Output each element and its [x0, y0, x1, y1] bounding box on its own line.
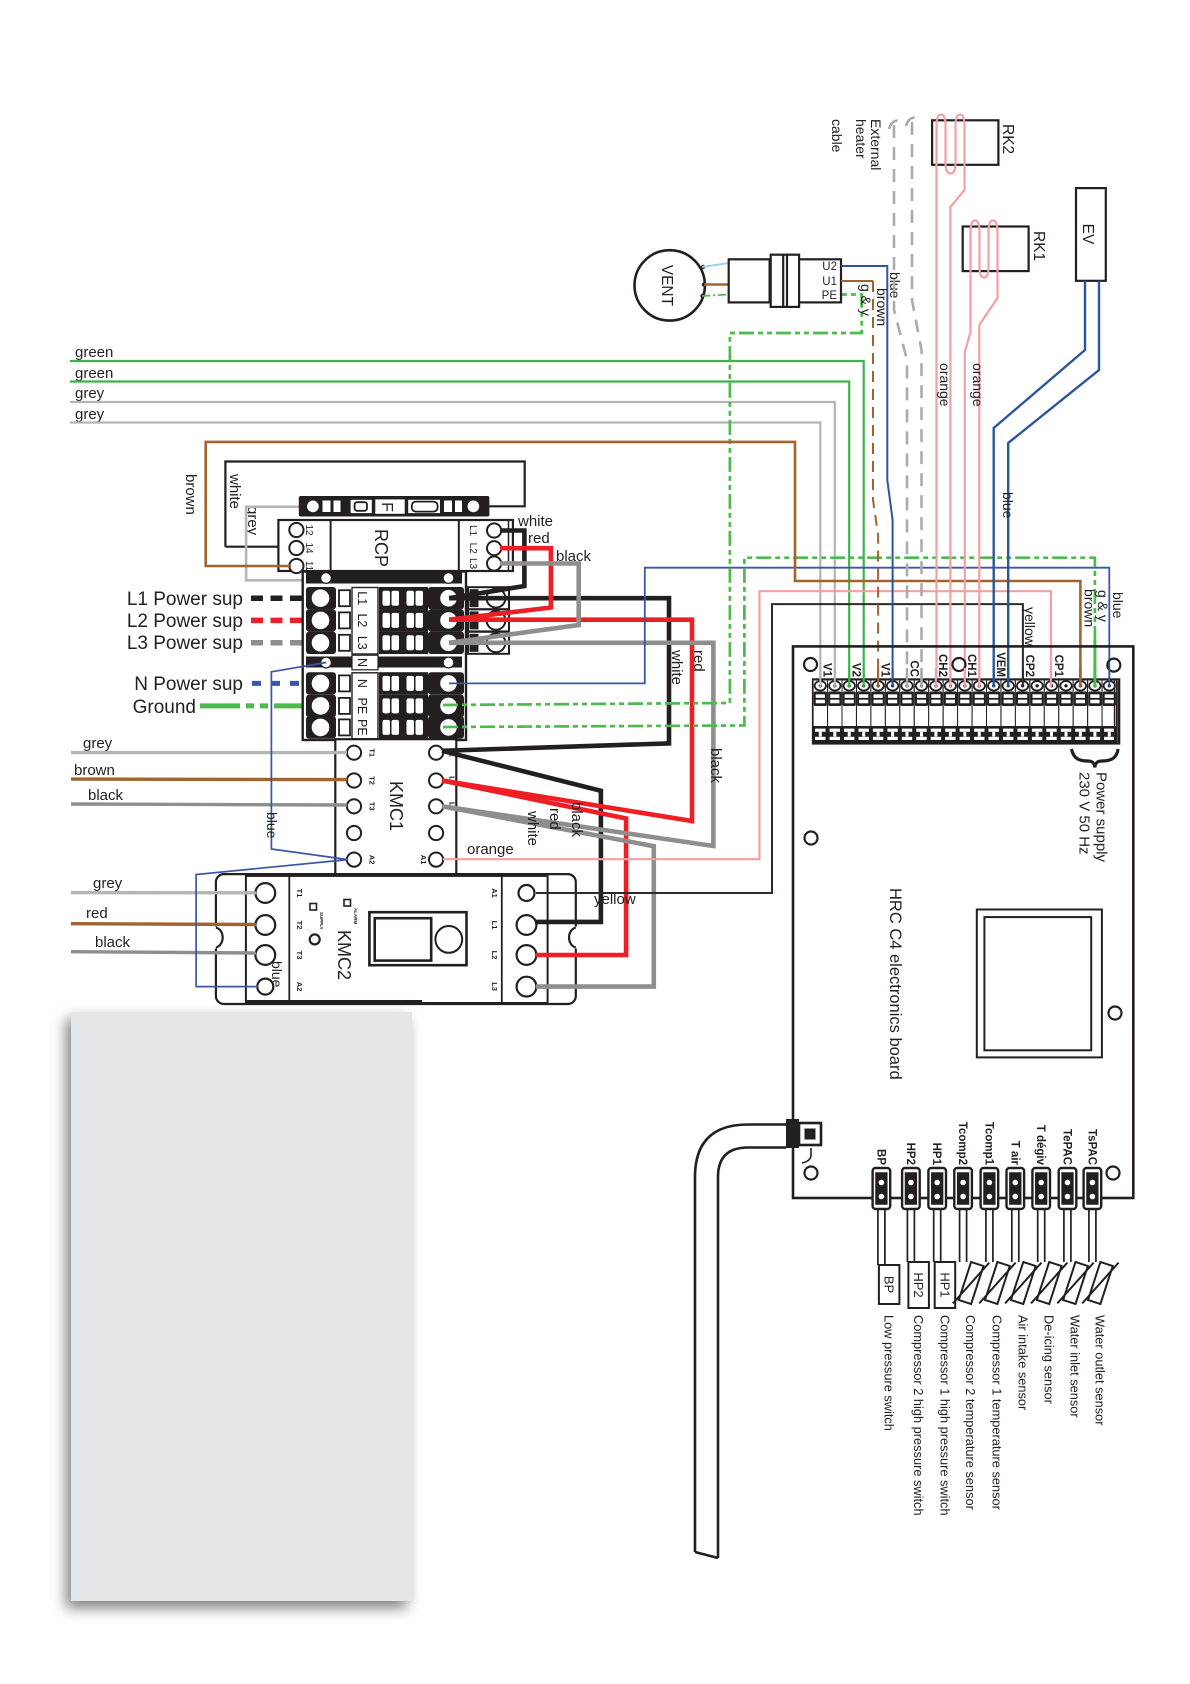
svg-text:Ground: Ground — [133, 697, 196, 718]
svg-text:VEM: VEM — [994, 652, 1006, 677]
svg-text:Compressor 1 high pressure swi: Compressor 1 high pressure switch — [937, 1315, 952, 1516]
svg-text:blue: blue — [1110, 592, 1126, 619]
thermistor Tcomp1 — [979, 1256, 1015, 1310]
wire blue EV to board t13 — [994, 281, 1085, 685]
pressure switch BP — [879, 1265, 900, 1304]
svg-text:cable: cable — [829, 119, 845, 153]
svg-text:blue: blue — [264, 812, 280, 839]
svg-text:CH2: CH2 — [936, 654, 948, 677]
sensor wires — [878, 1209, 1096, 1265]
svg-text:white: white — [668, 649, 685, 685]
fan VENT — [635, 250, 705, 320]
svg-text:TsPAC: TsPAC — [1085, 1129, 1097, 1165]
pressure switch HP2 — [908, 1262, 929, 1308]
wire blue N terminal to board t21 — [449, 568, 1109, 685]
svg-text:CH1: CH1 — [965, 654, 977, 678]
svg-text:V1: V1 — [821, 663, 833, 678]
thermistor TePAC — [1057, 1256, 1093, 1310]
svg-text:black: black — [88, 787, 124, 804]
wire black to KMC2 T3 — [71, 934, 256, 953]
svg-text:black: black — [556, 548, 592, 565]
svg-text:KMC2: KMC2 — [334, 930, 354, 980]
svg-text:Tcomp1: Tcomp1 — [982, 1122, 994, 1166]
legend L1 Power sup — [127, 589, 318, 610]
svg-text:Air intake sensor: Air intake sensor — [1015, 1315, 1030, 1411]
grey placeholder panel — [71, 1012, 412, 1601]
display cutout — [977, 910, 1102, 1058]
svg-text:blue: blue — [269, 961, 285, 988]
svg-text:white: white — [517, 513, 553, 530]
svg-text:L3: L3 — [467, 558, 478, 570]
thermistor T air — [1005, 1256, 1041, 1310]
power cable tube — [695, 1125, 786, 1559]
svg-text:N Power sup: N Power sup — [134, 674, 243, 695]
sensor connectors on board — [873, 1168, 1102, 1209]
svg-text:white: white — [226, 473, 243, 509]
svg-text:red: red — [528, 530, 550, 547]
wire brown dashed VENT U1 to board t5 — [841, 280, 873, 282]
svg-text:grey: grey — [75, 385, 105, 402]
wire g and y solid tail into t20 — [1093, 640, 1096, 685]
label External heater cable — [829, 119, 884, 170]
svg-text:T1: T1 — [295, 889, 304, 898]
svg-text:L2 Power sup: L2 Power sup — [127, 611, 243, 632]
VENT terminal dots — [700, 265, 706, 298]
board power cable connector — [786, 1119, 821, 1163]
svg-text:orange: orange — [937, 363, 953, 407]
wire grey 1 — [70, 385, 835, 685]
svg-text:T2: T2 — [295, 921, 304, 930]
svg-text:V2: V2 — [850, 663, 862, 677]
svg-text:brown: brown — [874, 288, 890, 326]
wire blue EV to board t14 — [1008, 281, 1099, 685]
svg-text:RK2: RK2 — [999, 124, 1016, 154]
svg-text:U1: U1 — [822, 276, 837, 288]
sensor description labels — [882, 1315, 1108, 1516]
wire cyan VENT U2 lead — [702, 263, 729, 267]
svg-text:green: green — [75, 365, 113, 382]
wire red RCP L2 to KMC1/KMC2 — [442, 548, 692, 955]
svg-text:black: black — [95, 934, 131, 951]
svg-text:BP: BP — [874, 1149, 886, 1165]
wire grey to KMC2 T1 — [71, 875, 256, 893]
wire grey 2 — [70, 406, 820, 685]
svg-text:red: red — [86, 905, 108, 922]
relay RCP — [278, 520, 513, 573]
svg-text:L2: L2 — [467, 543, 478, 555]
contactor KMC1 — [335, 739, 456, 874]
terminal block extension L1 L2 L3 — [468, 587, 509, 654]
svg-text:VENT: VENT — [658, 265, 675, 307]
svg-text:heater: heater — [853, 119, 869, 159]
svg-text:11: 11 — [303, 561, 314, 572]
svg-text:A2: A2 — [368, 855, 377, 865]
external heater cable dashed wires — [889, 117, 922, 685]
legend N Power sup — [134, 674, 318, 695]
svg-text:CC: CC — [908, 660, 920, 677]
svg-text:L1: L1 — [467, 525, 478, 537]
wire blue N to KMC1 A2 / KMC2 A2 — [196, 663, 348, 987]
svg-text:TePAC: TePAC — [1061, 1129, 1073, 1165]
svg-text:T dégiv: T dégiv — [1034, 1125, 1046, 1166]
thermistor T degiv — [1031, 1256, 1067, 1310]
svg-text:blue: blue — [1000, 492, 1016, 519]
legend L3 Power sup — [127, 633, 318, 654]
heater RK1 — [963, 221, 1047, 687]
svg-text:Compressor 1 temperature senso: Compressor 1 temperature sensor — [990, 1315, 1005, 1511]
svg-text:Water outlet sensor: Water outlet sensor — [1093, 1315, 1108, 1426]
svg-text:PE: PE — [355, 719, 369, 736]
svg-text:PE: PE — [822, 290, 838, 302]
svg-text:De-icing sensor: De-icing sensor — [1041, 1315, 1056, 1405]
svg-text:External: External — [868, 119, 884, 170]
svg-text:V1: V1 — [879, 663, 891, 678]
svg-text:grey: grey — [93, 875, 123, 892]
legend L2 Power sup — [127, 611, 318, 632]
svg-text:yellow: yellow — [594, 891, 636, 908]
svg-text:L2: L2 — [490, 951, 499, 960]
svg-text:230 V 50 Hz: 230 V 50 Hz — [1076, 772, 1093, 855]
svg-text:white: white — [524, 810, 541, 846]
svg-text:L1: L1 — [490, 921, 499, 930]
svg-text:black: black — [568, 802, 585, 838]
svg-text:red: red — [690, 650, 707, 672]
svg-text:g & y: g & y — [858, 284, 874, 316]
svg-text:T3: T3 — [368, 802, 377, 811]
wire g and y VENT PE lead — [702, 295, 729, 297]
wire brown RCP 11 to board t19 — [206, 442, 1081, 685]
svg-text:Low pressure switch: Low pressure switch — [882, 1315, 897, 1431]
brace power supply — [1072, 749, 1119, 768]
svg-text:U2: U2 — [822, 261, 837, 273]
svg-text:HP1: HP1 — [930, 1143, 942, 1166]
svg-text:brown: brown — [74, 762, 115, 779]
svg-text:EV: EV — [1079, 224, 1096, 245]
wire ground PE row2 to board t20 — [443, 558, 1095, 727]
svg-text:L1 Power sup: L1 Power sup — [127, 589, 243, 610]
wire grey to KMC1 T1 — [71, 735, 347, 753]
main terminal block X1 — [303, 572, 466, 741]
wire green 2 — [70, 365, 849, 685]
board terminal strip — [813, 679, 1119, 743]
svg-text:N: N — [355, 679, 369, 688]
svg-text:SUPPLY: SUPPLY — [319, 912, 324, 930]
svg-text:T3: T3 — [295, 951, 304, 960]
svg-text:Water inlet sensor: Water inlet sensor — [1068, 1315, 1083, 1418]
svg-text:green: green — [75, 344, 113, 361]
labels U2 U1 PE — [822, 261, 838, 302]
svg-text:CP1: CP1 — [1052, 655, 1064, 678]
svg-text:HP2: HP2 — [911, 1272, 926, 1297]
svg-text:L3: L3 — [490, 982, 499, 991]
svg-text:A1: A1 — [490, 888, 499, 898]
svg-text:PE: PE — [355, 698, 369, 715]
svg-text:F: F — [378, 502, 395, 512]
cable outline rectangle (white cable) — [225, 462, 524, 547]
wire brown VENT U1 lead — [704, 283, 729, 285]
svg-text:12: 12 — [303, 524, 314, 536]
svg-text:grey: grey — [75, 406, 105, 423]
svg-text:14: 14 — [303, 542, 314, 554]
svg-text:brown: brown — [182, 474, 199, 515]
wire tips into board terminals — [820, 668, 1109, 687]
svg-text:HP1: HP1 — [937, 1272, 952, 1297]
svg-text:ALARM: ALARM — [353, 908, 358, 924]
svg-text:Compressor 2 high pressure swi: Compressor 2 high pressure switch — [911, 1315, 926, 1516]
HRC C4 electronics board — [793, 646, 1133, 1198]
svg-text:A2: A2 — [295, 982, 304, 992]
svg-text:L3: L3 — [355, 636, 369, 650]
wire blue VENT U2 to board t6 — [841, 266, 893, 685]
connector labels BP..TsPAC — [874, 1122, 1097, 1166]
svg-text:L3 Power sup: L3 Power sup — [127, 633, 243, 654]
svg-text:orange: orange — [970, 363, 986, 407]
heater RK2 — [932, 115, 1016, 687]
svg-text:brown: brown — [1082, 589, 1098, 627]
valve EV — [1076, 188, 1106, 281]
svg-text:HP2: HP2 — [904, 1143, 916, 1165]
svg-text:KMC1: KMC1 — [386, 781, 406, 831]
svg-text:T air: T air — [1008, 1141, 1020, 1166]
svg-text:A1: A1 — [419, 855, 428, 865]
fuse block F on RCP — [299, 496, 490, 517]
svg-text:grey: grey — [83, 735, 113, 752]
svg-text:orange: orange — [467, 841, 514, 858]
svg-text:Tcomp2: Tcomp2 — [956, 1122, 968, 1165]
svg-text:black: black — [707, 748, 724, 784]
svg-text:red: red — [546, 808, 563, 830]
svg-text:L2: L2 — [355, 613, 369, 627]
contactor KMC2 — [213, 874, 580, 1004]
legend Ground — [133, 697, 318, 718]
pressure switch HP1 — [935, 1262, 956, 1308]
wire ground PE row1 to VENT — [443, 295, 862, 706]
VENT connector — [729, 255, 841, 307]
svg-text:yellow: yellow — [1022, 607, 1038, 647]
svg-text:CP2: CP2 — [1023, 655, 1035, 677]
svg-text:Compressor 2 temperature senso: Compressor 2 temperature sensor — [963, 1315, 978, 1511]
wire black (drawn grey) RCP L3 to KMC1/KMC2 — [442, 564, 713, 987]
wire red (brown drawn) to KMC2 T2 — [71, 905, 256, 925]
wire grey to F-block — [246, 507, 324, 581]
svg-text:T1: T1 — [368, 748, 377, 757]
svg-text:Power supply: Power supply — [1093, 772, 1110, 863]
svg-text:HRC C4 electronics board: HRC C4 electronics board — [886, 888, 904, 1080]
thermistor Tcomp2 — [953, 1256, 989, 1310]
svg-text:T2: T2 — [368, 776, 377, 785]
svg-text:L1: L1 — [355, 591, 369, 605]
board terminal labels — [821, 652, 1065, 678]
wire brown to KMC1 T2 — [71, 762, 347, 780]
thermistor TsPAC — [1082, 1256, 1118, 1310]
wire yellow KMC2 A1 to board t15 — [536, 604, 1023, 893]
svg-text:RK1: RK1 — [1030, 231, 1047, 261]
svg-text:N: N — [355, 658, 369, 667]
wire orange KMC1 A1 to board t17 — [443, 591, 1051, 859]
svg-text:BP: BP — [882, 1276, 897, 1293]
wire white (drawn black) RCP L1 to KMC1/KMC2 — [442, 531, 669, 922]
svg-text:RCP: RCP — [371, 529, 391, 567]
wire black (grey drawn) to KMC1 T3 — [71, 787, 347, 805]
wire green 1 (top) — [70, 344, 864, 685]
